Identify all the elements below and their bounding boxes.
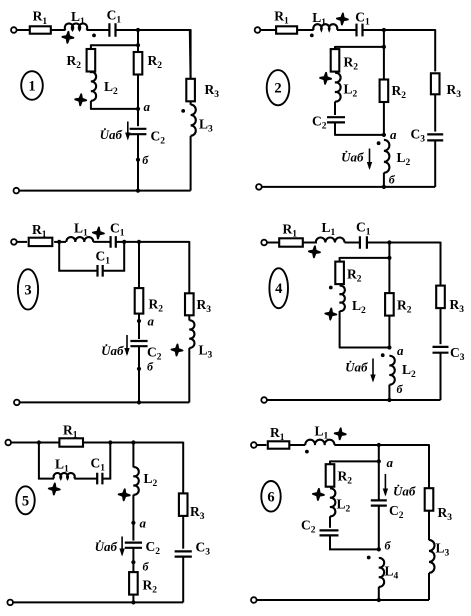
wire [428, 511, 430, 540]
output terminal bottom [13, 188, 19, 194]
wire [340, 257, 390, 259]
inductor L1 [54, 473, 75, 479]
star mark [172, 345, 183, 356]
wire [74, 478, 97, 480]
wire [334, 102, 336, 116]
wire [190, 29, 192, 79]
wire top rail [124, 241, 189, 243]
inductor L2 [133, 467, 138, 495]
circled number 5 [16, 486, 34, 514]
circled number 6 [261, 481, 280, 512]
wire [297, 29, 314, 31]
circled number 1 [21, 71, 43, 100]
output terminal bottom [261, 397, 267, 403]
bottom rail wire [19, 190, 191, 192]
svg-text:1: 1 [28, 79, 35, 95]
resistor R1 [30, 26, 51, 33]
wire right branch [428, 444, 430, 488]
wire [334, 46, 336, 50]
wire [257, 444, 267, 446]
wire [388, 385, 390, 400]
node junction [387, 256, 391, 260]
dot mark [181, 109, 185, 113]
resistor R1 [276, 26, 297, 33]
inductor L2 lower [389, 356, 394, 385]
arrow Uab [127, 122, 129, 139]
node a [137, 319, 141, 323]
arrow Uab [384, 474, 386, 495]
resistor R2 middle [134, 52, 143, 75]
resistor R3 [425, 488, 434, 511]
wire [190, 136, 192, 191]
wire middle [378, 461, 380, 500]
arrow Uab [126, 335, 128, 354]
dot mark [310, 34, 314, 38]
wire right branch [434, 29, 436, 71]
star mark [119, 489, 130, 500]
circled number 4 [269, 268, 288, 308]
wire [87, 29, 110, 31]
wire [434, 94, 436, 131]
node junction [377, 598, 381, 602]
wire [132, 595, 134, 603]
node junction [108, 440, 112, 444]
svg-text:б: б [142, 153, 149, 167]
wire [182, 516, 184, 549]
svg-text:U̇аб: U̇аб [100, 127, 123, 142]
wire [383, 47, 385, 80]
wire [115, 29, 190, 31]
wire [132, 548, 134, 573]
wire [440, 308, 442, 344]
wire [103, 242, 125, 271]
wire [188, 348, 190, 403]
node junction [57, 240, 61, 244]
wire [137, 134, 139, 190]
capacitor C3 [175, 551, 192, 556]
output terminal bottom [7, 600, 13, 606]
resistor R2 upper [326, 464, 335, 487]
wire [330, 460, 379, 462]
star mark [49, 484, 60, 495]
capacitor C1 [97, 473, 102, 485]
wire [90, 108, 138, 110]
wire [428, 573, 430, 600]
bottom rail wire [262, 186, 436, 188]
node junction [122, 240, 126, 244]
wire [16, 29, 30, 31]
wire [182, 557, 184, 603]
capacitor C3 [427, 134, 443, 140]
resistor R3 [185, 293, 194, 315]
capacitor C1 [357, 24, 363, 37]
wire [378, 445, 380, 461]
wire parallel lower [39, 443, 54, 479]
resistor R1 [268, 441, 290, 448]
inductor L2 [91, 72, 96, 101]
resistor R3 [186, 79, 195, 102]
inductor L2 left [340, 286, 345, 311]
resistor R3 [431, 73, 440, 94]
capacitor C2 [327, 117, 345, 122]
wire [54, 241, 66, 243]
wire [383, 102, 385, 135]
circuit 6: input terminal top [251, 442, 257, 448]
wire [388, 316, 390, 348]
wire [138, 242, 140, 288]
wire [388, 243, 390, 258]
capacitor C2 left [320, 530, 339, 535]
wire [440, 353, 442, 400]
circled number 2 [267, 70, 290, 105]
svg-text:б: б [389, 173, 396, 187]
node a [387, 345, 391, 349]
wire [329, 461, 331, 465]
star mark [309, 246, 320, 257]
resistor R1 [29, 238, 53, 246]
inductor L4 [379, 558, 384, 587]
svg-text:U̇аб: U̇аб [341, 150, 364, 165]
wire [51, 29, 66, 31]
resistor R2 left [335, 262, 344, 285]
circuit 3: input terminal top [11, 239, 17, 245]
star mark [320, 73, 331, 84]
wire [137, 45, 139, 52]
resistor R2 [135, 288, 144, 314]
wire [82, 442, 183, 444]
wire [335, 46, 384, 48]
arrow Uab [121, 537, 123, 555]
svg-text:U̇аб: U̇аб [345, 360, 368, 375]
wire [190, 101, 192, 105]
svg-text:a: a [148, 314, 155, 329]
output terminal bottom [251, 597, 257, 603]
wire [339, 311, 341, 348]
inductor L1 [316, 237, 345, 242]
wire [132, 495, 134, 541]
node b [131, 560, 135, 564]
resistor R2 middle [380, 80, 389, 103]
wire [91, 44, 138, 46]
wire [137, 30, 139, 45]
svg-text:a: a [397, 343, 404, 358]
capacitor C1 [360, 236, 367, 248]
wire [11, 442, 60, 444]
svg-text:5: 5 [22, 493, 29, 509]
star mark [325, 309, 336, 320]
wire [339, 347, 390, 349]
inductor L3 [429, 540, 435, 573]
capacitor C2 [125, 543, 142, 548]
wire [367, 242, 441, 244]
dot mark [329, 286, 333, 290]
wire [378, 506, 380, 550]
svg-text:U̇аб: U̇аб [101, 343, 124, 358]
node junction [131, 440, 135, 444]
resistor R2 [129, 572, 138, 595]
wire [334, 134, 384, 136]
node junction [37, 440, 41, 444]
wire [260, 29, 276, 31]
resistor R2 middle [385, 293, 394, 316]
wire [363, 29, 436, 31]
inductor L3 [191, 105, 196, 136]
bottom rail wire [267, 399, 441, 401]
capacitor C1 upper [111, 236, 116, 248]
resistor R3 [436, 286, 445, 309]
star mark [337, 14, 348, 25]
svg-text:U̇аб: U̇аб [393, 484, 416, 499]
svg-text:б: б [397, 382, 404, 396]
dot mark [305, 450, 309, 454]
node junction [136, 43, 140, 47]
wire [102, 443, 110, 479]
circled number 3 [18, 269, 38, 309]
wire [434, 140, 436, 187]
wire [116, 241, 124, 243]
inductor L2 lower [384, 140, 390, 173]
star mark [335, 428, 346, 439]
svg-text:a: a [140, 516, 147, 531]
wire [383, 30, 385, 47]
wire [188, 315, 190, 320]
wire [93, 241, 111, 243]
svg-text:б: б [143, 560, 150, 574]
node junction [137, 240, 141, 244]
wire [330, 535, 379, 549]
wire parallel lower [59, 242, 97, 271]
wire [383, 173, 385, 187]
dot mark [377, 141, 381, 145]
inductor L3 [189, 320, 194, 348]
inductor L1 [66, 237, 93, 242]
node a [136, 107, 140, 111]
wire [334, 444, 429, 446]
wire [90, 101, 92, 109]
node junction [382, 28, 386, 32]
node junction [136, 189, 140, 193]
wire [378, 587, 380, 600]
inductor L1 [305, 440, 334, 445]
bottom rail wire [20, 401, 190, 403]
node junction [387, 398, 391, 402]
node junction [136, 28, 140, 32]
capacitor C2 [130, 129, 147, 134]
wire [329, 516, 331, 528]
bottom rail wire [13, 601, 183, 603]
circuit 1: input terminal top [11, 27, 17, 33]
wire right branch [440, 242, 442, 286]
capacitor C2 middle [371, 500, 387, 505]
dot mark [92, 34, 96, 38]
resistor R3 [179, 493, 188, 516]
svg-text:a: a [390, 127, 397, 142]
inductor L1 [313, 24, 337, 30]
resistor R1 [59, 438, 83, 446]
svg-text:U̇аб: U̇аб [95, 539, 118, 554]
node junction [387, 240, 391, 244]
resistor R2 upper [331, 49, 340, 72]
inductor L1 [65, 23, 87, 30]
arrow Uab [372, 359, 374, 381]
svg-text:a: a [144, 99, 151, 114]
circuit 2: input terminal top [255, 27, 261, 33]
circuit 5: input terminal top [5, 440, 11, 446]
wire [289, 444, 305, 446]
dot mark [381, 353, 385, 357]
dot mark [367, 556, 371, 560]
wire [303, 242, 317, 244]
svg-text:2: 2 [274, 81, 281, 97]
wire right branch [182, 442, 184, 494]
svg-text:a: a [387, 455, 394, 470]
wire [334, 122, 336, 134]
svg-text:4: 4 [275, 281, 282, 297]
node junction [382, 45, 386, 49]
wire middle branch [132, 443, 134, 468]
star mark [313, 489, 324, 500]
capacitor C2 [130, 341, 147, 346]
wire [90, 71, 92, 73]
inductor L2 upper [335, 73, 341, 102]
wire [388, 258, 390, 293]
node junction [382, 185, 386, 189]
star mark [93, 228, 104, 239]
bottom rail wire [257, 599, 430, 601]
wire [337, 29, 357, 31]
node junction [377, 443, 381, 447]
svg-text:б: б [147, 360, 154, 374]
node a [382, 133, 386, 137]
output terminal bottom [256, 184, 262, 190]
node a [131, 521, 135, 525]
resistor R1 [279, 238, 303, 246]
node b [136, 158, 140, 162]
node junction [131, 600, 135, 604]
star mark [62, 32, 73, 43]
circuit 4: input terminal top [261, 240, 267, 246]
svg-text:б: б [385, 539, 392, 553]
node b [377, 547, 381, 551]
inductor L2 [330, 488, 335, 516]
wire right branch [188, 241, 190, 293]
wire top rail right [189, 30, 192, 80]
wire [17, 241, 28, 243]
wire [339, 257, 341, 262]
wire [137, 74, 139, 126]
resistor R2 left [87, 49, 96, 72]
capacitor C1 [109, 23, 115, 37]
wire [267, 242, 279, 244]
node b [137, 367, 141, 371]
wire [138, 314, 140, 340]
capacitor C3 [433, 347, 449, 353]
wire [138, 346, 140, 402]
node a [377, 459, 381, 463]
wire [345, 242, 361, 244]
arrow Uab [369, 149, 371, 169]
star mark [75, 94, 86, 105]
output terminal bottom [14, 400, 20, 406]
svg-text:3: 3 [24, 282, 31, 298]
node junction [137, 400, 141, 404]
capacitor C1 lower [98, 265, 103, 277]
wire [90, 44, 92, 49]
svg-text:6: 6 [267, 489, 274, 505]
